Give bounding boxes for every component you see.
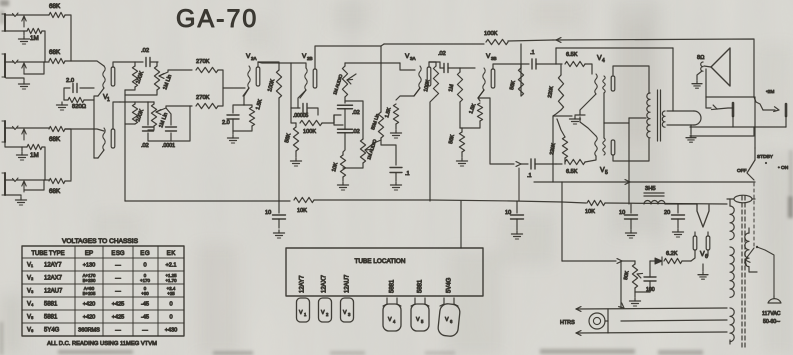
svg-text:0: 0 [169, 302, 172, 308]
svg-text:.02: .02 [352, 110, 360, 116]
svg-text:3H5: 3H5 [645, 186, 656, 192]
svg-text:8Ω: 8Ω [697, 55, 705, 61]
svg-text:270K: 270K [196, 59, 210, 65]
svg-text:12AU7: 12AU7 [345, 274, 351, 293]
svg-text:68K: 68K [49, 136, 61, 143]
svg-text:E SG: E SG [111, 251, 125, 257]
svg-text:1: 1 [107, 97, 110, 103]
svg-text:V₆: V₆ [27, 328, 34, 334]
svg-text:TUBE LOCATION: TUBE LOCATION [354, 258, 405, 265]
svg-text:TUBE TYPE: TUBE TYPE [31, 251, 64, 257]
svg-text:-45: -45 [141, 315, 149, 321]
svg-text:100K: 100K [303, 129, 316, 135]
svg-text:GA-70: GA-70 [176, 5, 258, 33]
svg-text:5881: 5881 [44, 315, 58, 321]
svg-text:68K: 68K [49, 49, 61, 56]
svg-text:.1: .1 [405, 171, 410, 177]
svg-text:12AU7: 12AU7 [44, 289, 63, 295]
svg-text:5881: 5881 [418, 279, 424, 293]
svg-text:270K: 270K [196, 95, 210, 101]
svg-text:—: — [142, 328, 148, 334]
svg-text:V₄: V₄ [27, 302, 34, 308]
svg-text:50-60∼: 50-60∼ [763, 319, 781, 325]
svg-text:V: V [416, 317, 420, 323]
svg-text:V₂: V₂ [27, 276, 34, 282]
svg-text:V: V [388, 317, 392, 323]
svg-text:.0001: .0001 [162, 143, 175, 149]
svg-text:2.0: 2.0 [66, 78, 74, 84]
svg-text:1M: 1M [30, 35, 39, 42]
svg-text:100K: 100K [484, 31, 498, 37]
svg-text:—: — [115, 328, 121, 334]
svg-text:117VAC: 117VAC [762, 311, 781, 317]
svg-text:B+205: B+205 [83, 291, 96, 296]
svg-text:+420: +420 [83, 302, 96, 308]
svg-text:V: V [299, 310, 303, 316]
svg-text:68K: 68K [49, 3, 61, 10]
svg-text:+170: +170 [140, 278, 150, 283]
svg-text:10: 10 [265, 210, 271, 216]
svg-text:E G: E G [140, 250, 150, 257]
svg-text:4: 4 [602, 58, 605, 64]
svg-text:100: 100 [646, 287, 655, 293]
svg-text:+1.70: +1.70 [165, 278, 177, 283]
svg-text:V₁: V₁ [27, 263, 33, 269]
svg-text:5V4G: 5V4G [447, 277, 453, 293]
svg-text:-45: -45 [141, 302, 149, 308]
svg-text:12AX7: 12AX7 [322, 274, 328, 293]
svg-text:+420: +420 [83, 315, 96, 321]
svg-text:+425: +425 [112, 302, 125, 308]
svg-text:.1: .1 [530, 50, 535, 56]
svg-text:E K: E K [167, 250, 177, 257]
svg-text:.02: .02 [141, 143, 149, 149]
svg-text:10: 10 [505, 210, 511, 216]
svg-text:V: V [445, 317, 449, 323]
svg-text:—: — [115, 276, 121, 282]
svg-text:20: 20 [664, 210, 670, 216]
svg-text:12AY7: 12AY7 [300, 275, 306, 293]
svg-text:10K: 10K [297, 208, 307, 214]
svg-text:+130: +130 [83, 263, 96, 269]
svg-text:5881: 5881 [44, 302, 58, 308]
svg-text:• ON: • ON [778, 165, 789, 171]
svg-text:•2M: •2M [766, 89, 774, 95]
svg-text:2.0: 2.0 [222, 120, 230, 126]
svg-text:V₃: V₃ [27, 289, 34, 295]
svg-text:V: V [343, 310, 347, 316]
svg-text:.02: .02 [352, 129, 360, 135]
svg-text:+425: +425 [112, 315, 125, 321]
svg-text:12AX7: 12AX7 [44, 276, 63, 282]
svg-text:B+230: B+230 [83, 278, 96, 283]
svg-text:12AY7: 12AY7 [44, 263, 62, 269]
svg-text:1M: 1M [30, 152, 39, 159]
svg-text:ALL D.C. READING USING 11MEG V: ALL D.C. READING USING 11MEG VTVM [47, 341, 157, 347]
svg-text:.00005: .00005 [293, 113, 309, 119]
svg-text:10K: 10K [585, 209, 595, 215]
svg-text:+90: +90 [141, 291, 149, 296]
svg-text:3B: 3B [491, 56, 497, 61]
svg-text:V₅: V₅ [27, 315, 34, 321]
svg-text:6.5K: 6.5K [566, 169, 578, 175]
svg-text:—: — [115, 289, 121, 295]
svg-text:2A: 2A [251, 56, 257, 61]
svg-text:10: 10 [619, 210, 625, 216]
svg-text:68K: 68K [49, 188, 61, 195]
svg-text:+25: +25 [167, 291, 175, 296]
svg-text:5881: 5881 [390, 279, 396, 293]
svg-text:360RMS: 360RMS [78, 328, 100, 334]
svg-text:2B: 2B [307, 56, 313, 61]
svg-text:OFF: OFF [737, 168, 747, 174]
svg-text:0: 0 [143, 263, 146, 269]
svg-text:6.2K: 6.2K [666, 251, 678, 257]
svg-text:5Y4G: 5Y4G [44, 328, 60, 334]
svg-text:V: V [321, 310, 325, 316]
svg-text:.1: .1 [527, 173, 532, 179]
svg-text:—: — [115, 263, 121, 269]
svg-text:820Ω: 820Ω [72, 104, 87, 110]
svg-text:6.5K: 6.5K [566, 52, 578, 58]
svg-text:.02: .02 [141, 48, 149, 54]
svg-text:+2.1: +2.1 [165, 263, 176, 269]
svg-text:EP: EP [85, 250, 93, 257]
svg-text:0: 0 [169, 315, 172, 321]
svg-text:.02: .02 [438, 51, 446, 57]
svg-text:HTRS: HTRS [560, 320, 575, 326]
svg-text:+430: +430 [165, 328, 178, 334]
svg-text:STDBY: STDBY [757, 154, 774, 160]
svg-text:3A: 3A [410, 56, 416, 61]
svg-text:5: 5 [605, 170, 608, 176]
svg-text:VOLTAGES TO CHASSIS: VOLTAGES TO CHASSIS [62, 238, 139, 245]
